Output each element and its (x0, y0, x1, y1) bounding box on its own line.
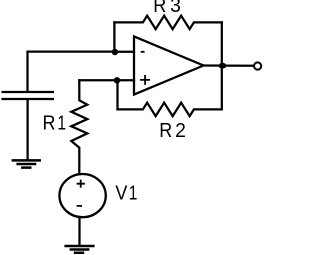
capacitor C1 top plate (1, 91, 54, 93)
V1 minus mark (77, 205, 82, 207)
svg-text:3: 3 (170, 0, 181, 17)
svg-text:1: 1 (57, 111, 66, 133)
wire cap top horizontal (28, 52, 115, 92)
op-amp U1 (134, 36, 204, 94)
op-amp plus pin mark (140, 75, 150, 85)
svg-text:2: 2 (175, 120, 186, 142)
ground left (12, 160, 41, 167)
wire V1 to ground (78, 217, 80, 245)
svg-text:R: R (43, 112, 56, 134)
wire cap to ground (26, 100, 28, 159)
svg-text:R: R (153, 0, 166, 17)
wire left rail R3 (113, 22, 115, 52)
V1 plus mark (77, 180, 85, 188)
wire output (204, 64, 254, 67)
op-amp minus pin mark (141, 51, 145, 53)
wire plus rail R2 (116, 80, 118, 109)
node minus junction (112, 49, 118, 55)
svg-text:1: 1 (129, 182, 138, 204)
node output junction (219, 63, 227, 69)
capacitor C1 bottom plate (1, 98, 54, 100)
wire plus input (79, 79, 134, 81)
resistor R1 (71, 80, 87, 174)
ground bottom (64, 246, 94, 253)
voltage source V1 (59, 174, 105, 217)
resistor R2 (118, 103, 222, 116)
svg-text:V: V (115, 183, 127, 205)
output terminal (254, 62, 261, 69)
wire right rail (221, 22, 223, 109)
node plus junction (114, 77, 120, 83)
wire minus input (115, 51, 135, 53)
resistor R3 (114, 16, 221, 29)
svg-text:R: R (159, 120, 172, 142)
